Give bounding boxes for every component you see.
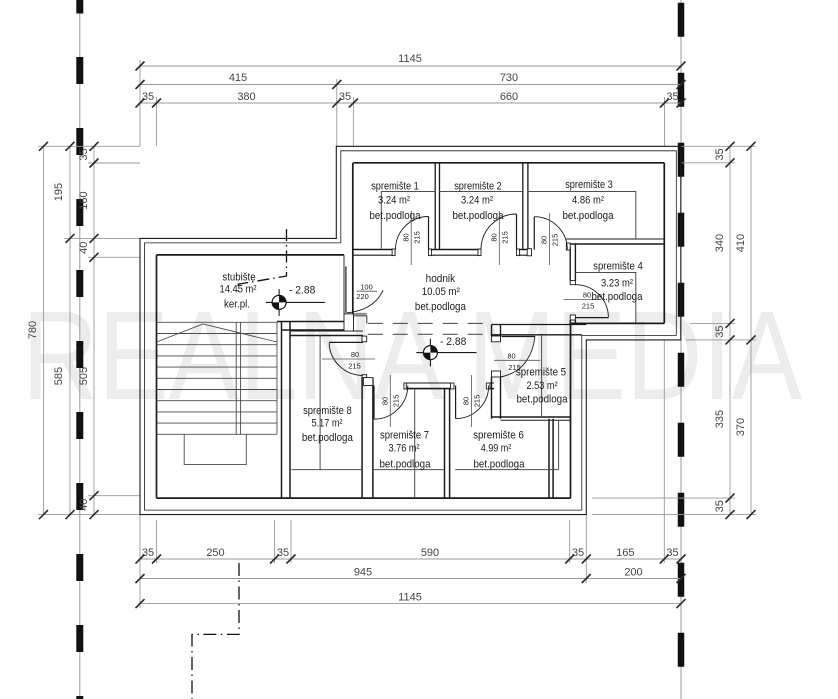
svg-text:- 2.88: - 2.88 [440,336,466,348]
door room4: swing arc [575,285,608,318]
stair break zigzag [157,324,278,342]
ticks top dim lines [136,62,686,108]
svg-text:200: 200 [624,567,642,579]
svg-text:35: 35 [277,547,289,559]
svg-text:590: 590 [421,547,439,559]
svg-text:2.53 m²: 2.53 m² [527,380,558,392]
door room5: swing arc [501,337,536,378]
door room5: leaf [502,336,536,338]
svg-text:80: 80 [583,291,591,300]
wall room8|room7 [362,378,373,499]
svg-text:585: 585 [53,367,65,385]
svg-text:730: 730 [500,72,518,84]
door label room4 (horizontal) [564,299,600,301]
exterior wall outer face polygon [140,146,681,514]
door room8: swing arc [329,343,363,376]
svg-text:335: 335 [714,410,726,428]
hodnik south wall band (west of stair door) [277,322,344,331]
attic height line room2 [440,191,523,193]
dim line right 410/370 [750,146,752,514]
elevation marker stubiste [266,285,325,317]
extension lines left [38,146,140,514]
svg-text:ker.pl.: ker.pl. [224,299,250,311]
svg-text:80: 80 [540,236,549,244]
door jambs rooms 1-3 south wall [392,249,395,256]
south wall of rooms 1-2 (band with door openings) [353,249,532,251]
dim line left 780 [43,146,45,514]
svg-text:35: 35 [572,547,584,559]
partition room1|room2 [435,163,439,250]
svg-text:spremište 4: spremište 4 [593,261,643,273]
lower flight outline [184,434,246,464]
door label line room7 [389,375,391,427]
attic height line room6 [455,420,558,469]
svg-text:3.23 m²: 3.23 m² [601,278,633,290]
room6 east wall [549,419,553,498]
hodnik opening dashed line upper [368,322,491,324]
parcel boundary line right (continuous thin gray) [680,0,682,699]
attic height line room3 [528,192,636,240]
door stubiste: leaf [345,267,347,313]
door room1: leaf [428,217,430,250]
svg-text:195: 195 [53,183,65,201]
upper section bottom wall inner face [570,322,664,324]
svg-text:3.24 m²: 3.24 m² [461,194,493,206]
svg-text:80: 80 [401,233,410,241]
svg-text:160: 160 [78,191,90,209]
door room6: swing arc [456,386,489,419]
svg-text:REALNA MEDIA: REALNA MEDIA [22,285,802,426]
dim line bottom 945/200 [140,578,681,580]
svg-text:40: 40 [78,242,90,254]
door room2: swing arc [481,214,517,250]
dim line right 35/340/35/335/35 [729,146,731,514]
svg-text:80: 80 [489,233,498,241]
dim line left 195/585 [69,146,71,514]
room8 door jambs [362,336,367,342]
svg-text:35: 35 [142,91,154,103]
svg-text:hodnik: hodnik [426,273,456,285]
svg-text:35: 35 [714,500,726,512]
svg-text:spremište 8: spremište 8 [303,405,352,417]
svg-text:505: 505 [78,367,90,385]
stubiste east wall [282,322,291,499]
door room1: swing arc [396,217,429,250]
attic height line room8 [292,336,363,470]
stair treads [157,322,278,434]
svg-text:bet.podloga: bet.podloga [453,210,505,222]
door label line room3 [548,213,550,265]
stair stringer double line [236,322,240,434]
svg-text:35: 35 [142,547,154,559]
svg-text:340: 340 [714,234,726,252]
svg-text:215: 215 [348,362,361,371]
svg-text:220: 220 [356,292,369,301]
dim line left 35/160/40/505/40 [93,146,95,514]
ticks right dim lines [726,142,756,519]
stubiste door jamb column [344,314,354,331]
room5 door jambs [492,336,501,342]
door room4: leaf [575,317,608,319]
extension lines bottom [140,340,664,608]
svg-text:5.17 m²: 5.17 m² [312,418,343,430]
svg-text:spremište 5: spremište 5 [516,367,566,379]
parcel dash-dot line through building (upper segment) [238,229,286,293]
svg-text:3.24 m²: 3.24 m² [378,194,410,206]
lower section north wall inner face [157,254,345,256]
door jambs room4 west wall [570,281,575,285]
south wall inner face [157,497,571,499]
partition room7|room6 [445,389,450,499]
svg-text:380: 380 [237,91,255,103]
door room7: leaf [373,386,375,420]
dim line top 1145 [140,65,681,67]
svg-text:bet.podloga: bet.podloga [563,210,615,222]
svg-text:spremište 7: spremište 7 [380,430,429,442]
svg-text:215: 215 [392,395,401,408]
exterior wall insulation line [145,151,677,510]
lower section east wall inner face [570,325,572,499]
svg-text:1145: 1145 [398,592,422,604]
ticks left dim lines [39,142,99,519]
parcel boundary line left (continuous thin gray) [79,0,81,699]
attic height line room1 [381,192,435,250]
svg-text:bet.podloga: bet.podloga [380,459,432,471]
ticks bottom dim lines [136,555,686,609]
svg-text:spremište 2: spremište 2 [454,180,502,192]
svg-text:165: 165 [616,547,634,559]
door room6: leaf [455,386,457,419]
svg-text:80: 80 [462,397,471,405]
svg-text:spremište 6: spremište 6 [473,430,524,442]
door label stubiste 100/220 [357,290,378,292]
svg-text:spremište 1: spremište 1 [371,180,419,192]
room4 west wall [570,244,575,325]
dim line bottom 35/250/35/590/35/165/35 [140,558,681,560]
parcel boundary dashes left (thick black) [76,0,83,699]
left wall inner face (lower section) [156,255,158,498]
stair east edge [276,322,278,434]
attic height line room5 [541,335,543,417]
door label line room6 [471,375,473,427]
svg-text:stubište: stubište [222,272,255,284]
svg-text:1145: 1145 [398,53,422,65]
dim line top 35/380/35/660/35 [140,102,681,104]
svg-text:945: 945 [354,567,372,579]
svg-text:215: 215 [501,231,510,244]
svg-text:250: 250 [206,547,224,559]
door room2: leaf [516,214,518,250]
svg-text:370: 370 [735,418,747,436]
wall step at stubiste door east [354,314,367,324]
svg-text:bet.podloga: bet.podloga [415,301,467,313]
svg-text:35: 35 [714,325,726,337]
svg-text:3.76 m²: 3.76 m² [389,443,420,455]
door room8: leaf [329,341,363,343]
elevation marker hodnik [416,336,476,366]
svg-text:80: 80 [351,350,359,359]
svg-text:35: 35 [339,91,351,103]
svg-text:bet.podloga: bet.podloga [517,394,569,406]
svg-text:410: 410 [735,234,747,252]
room7/6 north wall segments [406,382,494,384]
svg-text:14.45 m²: 14.45 m² [220,284,257,296]
dim line top 415/730 [140,84,681,86]
hodnik opening dashed line lower [368,333,491,335]
door room7: swing arc [374,386,408,420]
svg-text:215: 215 [551,234,560,247]
svg-text:4.99 m²: 4.99 m² [481,443,512,455]
top wall inner face [353,162,664,164]
svg-text:spremište 3: spremište 3 [565,179,613,191]
dim line bottom 1145 [140,603,681,605]
svg-text:80: 80 [381,397,390,405]
svg-text:35: 35 [666,91,678,103]
attic height line room7 [374,389,445,499]
room5 west wall [492,325,501,419]
svg-text:10.05 m²: 10.05 m² [422,286,460,298]
svg-text:4.86 m²: 4.86 m² [572,194,604,206]
parcel boundary dashes right (thick black) [678,3,685,667]
svg-text:660: 660 [500,91,518,103]
svg-text:215: 215 [473,395,482,408]
room5 south wall [492,416,571,418]
svg-text:bet.podloga: bet.podloga [592,291,644,303]
upper-left wall inner face [352,163,354,322]
upper-left wall west face below junction [343,255,345,314]
svg-text:bet.podloga: bet.podloga [474,459,526,471]
partition room2|room3 [523,163,528,250]
svg-text:- 2.88: - 2.88 [289,285,315,297]
svg-text:100: 100 [360,283,373,292]
room5 north wall band [492,325,587,335]
svg-text:35: 35 [714,148,726,160]
parcel dash-dot line bottom-left step [192,563,239,699]
extension lines right [592,146,756,514]
door stubiste: swing arc [347,290,383,313]
extension lines top [140,60,665,146]
room7 door jambs [404,383,406,389]
right wall inner face (upper section) [663,163,665,324]
svg-text:40: 40 [78,499,90,511]
door label room5 (horizontal) [494,359,540,361]
door room3: leaf [533,217,535,250]
room6 door jambs [451,383,455,389]
svg-text:215: 215 [413,231,422,244]
svg-text:35: 35 [78,148,90,160]
svg-text:bet.podloga: bet.podloga [370,210,422,222]
svg-text:415: 415 [229,72,247,84]
attic height line room4 [575,273,635,324]
svg-text:bet.podloga: bet.podloga [302,432,354,444]
room8 north wall [290,330,363,332]
door label room8 (horizontal) [322,358,375,360]
door label line room2 [498,211,500,265]
svg-text:780: 780 [27,321,39,339]
svg-text:35: 35 [666,547,678,559]
svg-text:80: 80 [507,351,515,360]
room3 south / room4 north wall band [566,238,664,240]
door room3: swing arc [534,217,567,250]
door label line room1 [410,211,412,265]
